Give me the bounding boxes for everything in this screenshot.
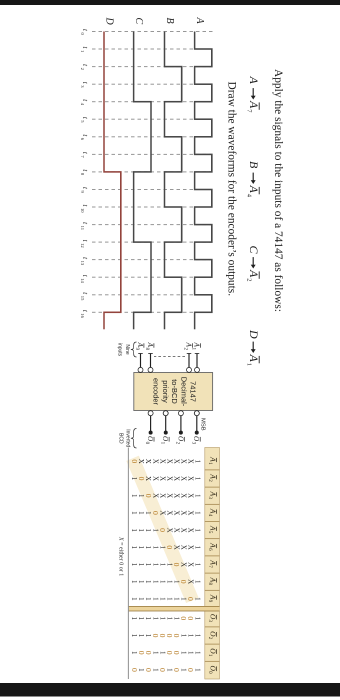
svg-text:inputs: inputs	[117, 343, 123, 357]
svg-text:Inverted: Inverted	[125, 429, 131, 447]
svg-text:0: 0	[186, 597, 195, 601]
svg-text:0: 0	[137, 477, 146, 481]
svg-text:encoder: encoder	[152, 378, 161, 406]
svg-text:1: 1	[194, 634, 202, 638]
svg-text:t: t	[81, 292, 89, 295]
svg-text:4: 4	[80, 103, 85, 106]
svg-text:X: X	[187, 510, 195, 515]
svg-text:C: C	[133, 18, 144, 25]
svg-text:1: 1	[130, 563, 138, 567]
svg-text:X: X	[172, 459, 180, 464]
svg-text:2: 2	[183, 348, 189, 351]
svg-text:MSB: MSB	[200, 418, 206, 431]
svg-text:3: 3	[190, 442, 196, 445]
svg-text:1: 1	[158, 617, 166, 621]
svg-text:1: 1	[159, 442, 165, 445]
svg-text:1: 1	[130, 597, 138, 601]
svg-text:7: 7	[80, 155, 85, 158]
svg-text:0: 0	[172, 668, 181, 672]
svg-text:X = either 0 or 1: X = either 0 or 1	[118, 536, 124, 576]
svg-text:1: 1	[130, 580, 138, 584]
svg-text:X: X	[158, 493, 166, 498]
svg-text:0: 0	[144, 668, 153, 672]
svg-text:0: 0	[165, 545, 174, 549]
svg-text:1: 1	[144, 546, 152, 550]
svg-text:8: 8	[144, 348, 150, 351]
svg-text:X: X	[158, 476, 166, 481]
svg-text:A: A	[194, 17, 205, 25]
svg-text:2: 2	[245, 278, 252, 281]
svg-text:1: 1	[130, 528, 138, 532]
svg-text:1: 1	[137, 634, 145, 638]
svg-text:1: 1	[137, 494, 145, 498]
svg-text:1: 1	[194, 460, 202, 464]
svg-text:1: 1	[158, 546, 166, 550]
svg-text:1: 1	[194, 563, 202, 567]
svg-text:0: 0	[158, 528, 167, 532]
svg-text:1: 1	[151, 580, 159, 584]
svg-text:X: X	[187, 493, 195, 498]
svg-text:1: 1	[144, 580, 152, 584]
svg-text:8: 8	[80, 173, 85, 176]
svg-text:1: 1	[194, 546, 202, 550]
svg-text:1: 1	[165, 580, 173, 584]
svg-text:2: 2	[175, 442, 181, 445]
svg-text:X: X	[165, 510, 173, 515]
svg-text:Nine: Nine	[124, 344, 130, 355]
svg-text:1: 1	[165, 563, 173, 567]
svg-text:BCD: BCD	[118, 433, 124, 444]
svg-text:0: 0	[158, 668, 167, 672]
svg-text:1: 1	[137, 563, 145, 567]
svg-text:1: 1	[172, 617, 180, 621]
svg-text:0: 0	[179, 616, 188, 620]
svg-text:0: 0	[144, 442, 150, 445]
svg-text:11: 11	[80, 226, 85, 231]
svg-text:X: X	[187, 528, 195, 533]
svg-text:10: 10	[80, 208, 85, 213]
svg-text:1: 1	[194, 651, 202, 655]
svg-text:X: X	[172, 476, 180, 481]
svg-text:1: 1	[137, 580, 145, 584]
svg-text:1: 1	[187, 634, 195, 638]
svg-text:1: 1	[151, 617, 159, 621]
svg-text:X: X	[187, 459, 195, 464]
svg-text:1: 1	[130, 494, 138, 498]
svg-text:1: 1	[194, 494, 202, 498]
svg-text:C: C	[247, 246, 261, 255]
svg-text:14: 14	[80, 278, 85, 283]
svg-text:0: 0	[151, 511, 160, 515]
svg-text:1: 1	[172, 580, 180, 584]
svg-text:2: 2	[80, 68, 85, 71]
svg-text:1: 1	[130, 546, 138, 550]
svg-text:9: 9	[80, 191, 85, 194]
svg-text:X: X	[172, 493, 180, 498]
svg-text:Apply the signals to the input: Apply the signals to the inputs of a 741…	[272, 69, 284, 312]
svg-text:1: 1	[144, 597, 152, 601]
svg-text:1: 1	[144, 511, 152, 515]
svg-text:X: X	[151, 459, 159, 464]
svg-text:4: 4	[245, 194, 252, 198]
svg-text:X: X	[180, 528, 188, 533]
svg-text:1: 1	[137, 617, 145, 621]
svg-text:3: 3	[80, 85, 85, 88]
svg-text:1: 1	[165, 617, 173, 621]
svg-text:X: X	[180, 493, 188, 498]
svg-text:7: 7	[245, 109, 252, 113]
svg-text:1: 1	[194, 528, 202, 532]
svg-text:1: 1	[245, 363, 252, 366]
svg-text:X: X	[187, 562, 195, 567]
svg-text:5: 5	[80, 120, 85, 123]
svg-text:1: 1	[144, 563, 152, 567]
svg-text:X: X	[180, 476, 188, 481]
svg-text:1: 1	[158, 580, 166, 584]
svg-text:X: X	[172, 510, 180, 515]
svg-text:1: 1	[180, 597, 188, 601]
svg-text:priority: priority	[161, 380, 170, 403]
svg-text:B: B	[164, 18, 175, 24]
svg-text:1: 1	[151, 597, 159, 601]
svg-text:B: B	[247, 161, 261, 169]
svg-text:0: 0	[80, 33, 85, 36]
svg-text:1: 1	[158, 651, 166, 655]
svg-text:0: 0	[130, 668, 139, 672]
svg-text:0: 0	[172, 563, 181, 567]
svg-text:9: 9	[134, 348, 140, 351]
svg-text:15: 15	[80, 296, 85, 301]
svg-text:13: 13	[80, 261, 85, 266]
svg-text:0: 0	[151, 634, 160, 638]
svg-text:1: 1	[194, 511, 202, 515]
svg-text:Draw the waveforms for the enc: Draw the waveforms for the encoder’s out…	[226, 82, 238, 297]
svg-text:1: 1	[172, 597, 180, 601]
svg-text:X: X	[172, 528, 180, 533]
svg-text:X: X	[151, 476, 159, 481]
svg-text:1: 1	[158, 563, 166, 567]
svg-text:X: X	[165, 459, 173, 464]
svg-text:0: 0	[144, 494, 153, 498]
svg-text:1: 1	[80, 50, 85, 53]
svg-text:1: 1	[130, 617, 138, 621]
svg-text:X: X	[187, 545, 195, 550]
svg-text:X: X	[187, 476, 195, 481]
svg-text:1: 1	[130, 634, 138, 638]
svg-text:0: 0	[137, 651, 146, 655]
svg-text:X: X	[165, 493, 173, 498]
svg-text:12: 12	[80, 243, 85, 248]
svg-text:1: 1	[187, 651, 195, 655]
svg-text:1: 1	[137, 546, 145, 550]
svg-text:X: X	[180, 459, 188, 464]
svg-text:1: 1	[151, 528, 159, 532]
svg-text:D: D	[104, 17, 115, 26]
svg-text:0: 0	[165, 651, 174, 655]
svg-text:D: D	[247, 329, 261, 339]
svg-text:0: 0	[186, 668, 195, 672]
svg-text:1: 1	[191, 348, 197, 351]
svg-text:to-BCD: to-BCD	[170, 379, 179, 404]
svg-text:X: X	[165, 476, 173, 481]
svg-text:1: 1	[137, 511, 145, 515]
svg-text:X: X	[158, 459, 166, 464]
svg-text:1: 1	[151, 563, 159, 567]
svg-text:1: 1	[130, 477, 138, 481]
svg-text:1: 1	[130, 651, 138, 655]
svg-text:0: 0	[130, 459, 139, 463]
svg-text:X: X	[180, 510, 188, 515]
svg-text:1: 1	[144, 528, 152, 532]
svg-text:1: 1	[194, 580, 202, 584]
svg-text:Decimal-: Decimal-	[179, 377, 188, 407]
svg-text:1: 1	[151, 546, 159, 550]
svg-text:0: 0	[179, 580, 188, 584]
svg-text:1: 1	[137, 597, 145, 601]
svg-text:74147: 74147	[189, 381, 198, 402]
svg-text:16: 16	[80, 313, 85, 318]
svg-text:1: 1	[158, 597, 166, 601]
svg-text:1: 1	[130, 511, 138, 515]
svg-text:X: X	[144, 459, 152, 464]
svg-text:1: 1	[194, 477, 202, 481]
svg-text:1: 1	[144, 634, 152, 638]
svg-text:A: A	[247, 76, 261, 85]
svg-text:1: 1	[165, 597, 173, 601]
svg-text:1: 1	[144, 617, 152, 621]
svg-text:1: 1	[137, 528, 145, 532]
svg-text:X: X	[180, 545, 188, 550]
svg-text:6: 6	[80, 138, 85, 141]
